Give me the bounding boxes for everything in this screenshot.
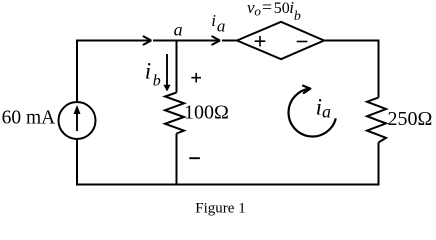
dependent source U1 diamond	[237, 22, 324, 59]
label 60 mA	[2, 108, 56, 129]
label i_b	[145, 59, 161, 90]
node a label	[174, 19, 183, 39]
svg-text:100Ω: 100Ω	[184, 102, 229, 124]
svg-text:b: b	[153, 72, 161, 89]
label i_a (top)	[211, 11, 225, 35]
svg-text:250Ω: 250Ω	[388, 108, 433, 130]
svg-text:Figure 1: Figure 1	[195, 201, 245, 217]
current source I1 circle	[59, 102, 96, 139]
svg-text:50: 50	[274, 0, 290, 17]
svg-text:a: a	[174, 19, 183, 39]
resistor R1 100 ohm zigzag	[165, 93, 184, 134]
arrow on top wire (left, toward node a)	[144, 36, 152, 44]
label + inside diamond	[255, 36, 266, 47]
label - below 100 ohm	[189, 157, 200, 159]
caption Figure 1	[195, 201, 245, 217]
svg-text:b: b	[294, 9, 301, 24]
svg-text:60 mA: 60 mA	[2, 108, 56, 129]
label + above 100 ohm	[191, 73, 201, 83]
wire gap after left arrow tip	[152, 39, 154, 42]
svg-text:o: o	[254, 4, 261, 19]
wire right rail upper	[378, 40, 380, 98]
wire top-right: diamond right vertex to right rail	[324, 40, 379, 42]
wire gap after i_a arrow tip	[220, 39, 222, 42]
mesh current arrow arc	[289, 86, 336, 137]
label v_o = 50 i_b above diamond	[247, 0, 301, 24]
svg-text:a: a	[217, 16, 226, 35]
arrow i_b (downward beside middle branch)	[163, 54, 170, 92]
svg-text:a: a	[322, 102, 331, 122]
label - inside diamond	[297, 41, 308, 43]
wire bottom rail	[76, 184, 380, 186]
arrow i_a on top wire (right of node a)	[212, 36, 220, 44]
wire middle branch upper (node a down to 100ohm)	[176, 40, 178, 93]
svg-text:i: i	[145, 59, 151, 84]
label 250 ohm	[388, 108, 433, 130]
wire right rail lower	[378, 143, 380, 186]
wire top-left: left rail to diamond left vertex	[77, 40, 237, 42]
label i_a (mesh)	[316, 95, 331, 122]
label 100 ohm	[184, 102, 229, 124]
wire middle branch lower	[176, 134, 178, 186]
svg-text:i: i	[211, 11, 216, 30]
resistor R2 250 ohm zigzag	[367, 98, 386, 143]
svg-text:=: =	[262, 0, 272, 17]
wire left rail lower	[76, 139, 78, 186]
current source I1 up arrow	[74, 105, 81, 131]
wire left rail upper	[76, 40, 78, 103]
